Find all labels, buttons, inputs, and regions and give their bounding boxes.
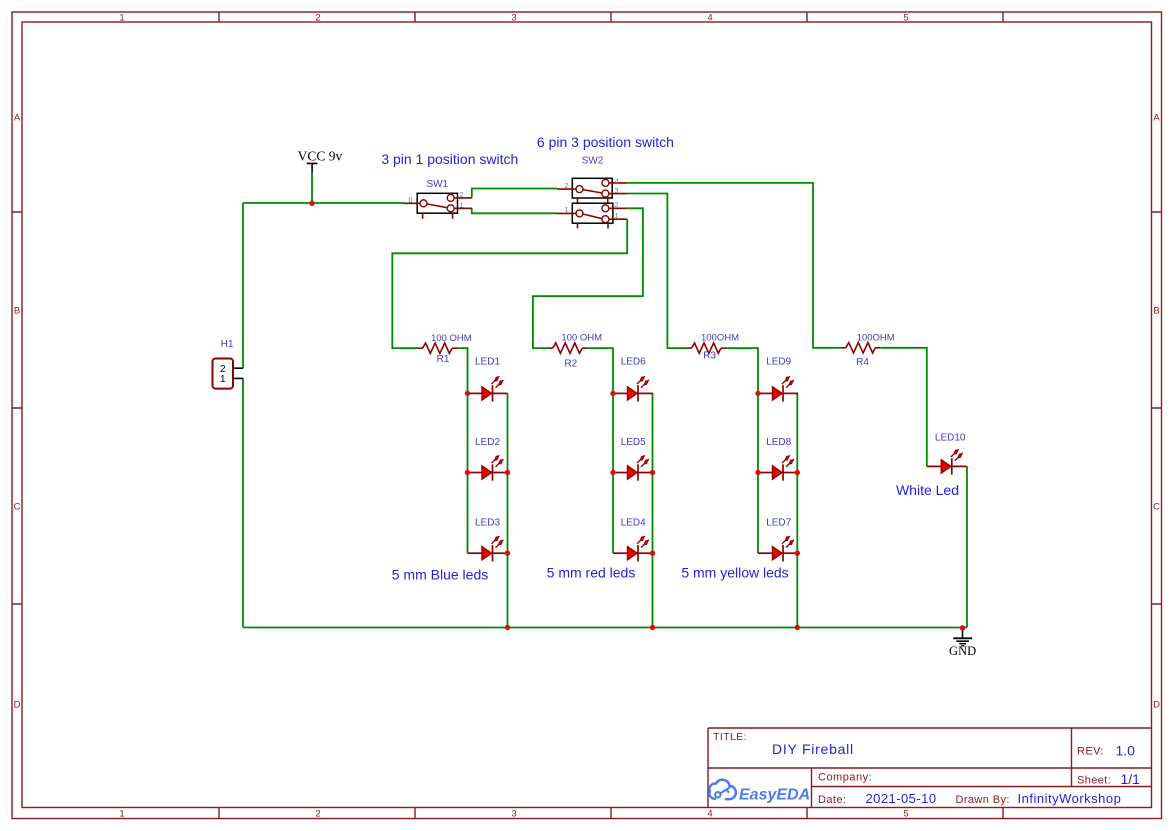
junction node LED8 cathode: [795, 470, 800, 475]
ground GND: [949, 628, 976, 658]
svg-text:2: 2: [565, 181, 569, 190]
svg-text:R4: R4: [856, 357, 869, 368]
LED LED7: [758, 536, 798, 561]
svg-text:2: 2: [315, 809, 320, 820]
svg-text:Company:: Company:: [818, 772, 872, 784]
EasyEDA logo: [709, 780, 810, 804]
wire SW2b pin1 to R1: [392, 219, 627, 348]
switch SW2 section B: [557, 203, 627, 228]
frame column labels: [119, 13, 908, 820]
LED LED9: [758, 376, 798, 401]
svg-text:4: 4: [707, 809, 712, 820]
wire SW2b pin2 to R2: [533, 208, 643, 348]
LED LED5: [613, 455, 653, 480]
power flag VCC 9v: [298, 149, 343, 173]
svg-text:LED8: LED8: [766, 437, 791, 448]
svg-text:H1: H1: [221, 339, 234, 350]
wire yellow LED cathode bus: [796, 393, 798, 627]
svg-text:2: 2: [614, 200, 618, 209]
svg-text:SW1: SW1: [426, 179, 448, 190]
svg-text:GND: GND: [949, 644, 976, 658]
wire H1 pin 1 to bottom rail: [242, 378, 244, 627]
junction node LED3 cathode: [505, 551, 510, 556]
svg-text:A: A: [1153, 113, 1160, 124]
wire red LED cathode bus: [652, 393, 654, 627]
svg-text:B: B: [14, 306, 20, 317]
junction node LED6 anode: [610, 391, 615, 396]
svg-text:VCC 9v: VCC 9v: [298, 149, 343, 164]
wire SW2a pin4 to R4: [627, 183, 841, 348]
svg-text:0: 0: [408, 196, 412, 205]
svg-text:1: 1: [565, 205, 569, 214]
svg-text:EasyEDA: EasyEDA: [739, 787, 810, 804]
svg-text:C: C: [1153, 502, 1160, 513]
svg-text:5: 5: [903, 809, 908, 820]
junction node LED7 cathode: [795, 551, 800, 556]
LED LED6: [613, 376, 653, 401]
svg-text:4: 4: [707, 13, 712, 24]
LED LED10: [927, 449, 967, 474]
svg-text:5 mm Blue leds: 5 mm Blue leds: [392, 567, 488, 583]
frame row labels: [14, 113, 1161, 711]
svg-text:TITLE:: TITLE:: [713, 731, 747, 743]
junction node LED9 anode: [755, 391, 760, 396]
LED LED4: [613, 536, 653, 561]
junction node VCC tap: [309, 201, 314, 206]
svg-text:D: D: [1153, 700, 1160, 711]
junction node LED8 anode: [755, 470, 760, 475]
svg-text:LED1: LED1: [475, 357, 500, 368]
svg-text:1.0: 1.0: [1116, 743, 1136, 759]
junction node blue column to rail: [505, 625, 510, 630]
svg-text:3: 3: [511, 13, 516, 24]
junction node LED5 anode: [610, 470, 615, 475]
svg-text:A: A: [14, 113, 21, 124]
svg-text:4: 4: [614, 176, 618, 185]
wire SW1 pin2 to SW2a pin2: [472, 189, 557, 198]
junction node LED1 anode: [465, 391, 470, 396]
wire R4 to LED10 anode: [880, 348, 927, 467]
wire main horizontal VCC rail: [243, 202, 403, 204]
junction node LED4 cathode: [650, 551, 655, 556]
switch SW2 section A: [557, 178, 627, 203]
svg-text:B: B: [1153, 306, 1159, 317]
svg-text:LED6: LED6: [621, 357, 646, 368]
wire R2 to red LED anode bus: [587, 348, 613, 553]
resistor R4: [841, 343, 880, 353]
LED LED2: [468, 455, 508, 480]
resistor R2: [548, 343, 587, 353]
wire R3 to yellow LED anode bus: [726, 348, 758, 553]
LED LED8: [758, 455, 798, 480]
svg-text:100OHM: 100OHM: [857, 333, 895, 344]
svg-text:2: 2: [315, 13, 320, 24]
junction node GND tap: [960, 625, 965, 630]
resistor R1: [418, 343, 458, 353]
svg-text:3 pin 1 position switch: 3 pin 1 position switch: [381, 151, 518, 167]
junction node yellow column to rail: [795, 625, 800, 630]
svg-text:1/1: 1/1: [1121, 771, 1141, 787]
svg-text:LED4: LED4: [621, 517, 646, 528]
svg-text:Date:: Date:: [818, 794, 846, 806]
svg-text:SW2: SW2: [582, 156, 604, 167]
title block values: [772, 741, 1140, 806]
wire blue LED cathode bus: [507, 393, 509, 627]
svg-text:LED5: LED5: [621, 437, 646, 448]
svg-text:R1: R1: [437, 354, 450, 365]
LED LED3: [468, 536, 508, 561]
svg-text:100OHM: 100OHM: [701, 333, 739, 344]
wire left rail to H1 pin 2: [242, 203, 244, 368]
SW1 pin numbers: [408, 190, 463, 209]
svg-text:3: 3: [511, 809, 516, 820]
junction node red column to rail: [650, 625, 655, 630]
svg-text:1: 1: [459, 201, 463, 210]
svg-text:2021-05-10: 2021-05-10: [866, 791, 937, 806]
svg-text:LED9: LED9: [766, 357, 791, 368]
svg-text:LED2: LED2: [475, 437, 500, 448]
svg-text:Sheet:: Sheet:: [1077, 775, 1111, 787]
svg-text:5 mm red leds: 5 mm red leds: [547, 564, 636, 580]
svg-text:5: 5: [903, 13, 908, 24]
wire LED10 cathode to rail: [966, 466, 968, 627]
svg-text:LED7: LED7: [766, 517, 791, 528]
title block field labels: [713, 731, 1111, 806]
svg-text:5 mm yellow leds: 5 mm yellow leds: [681, 564, 788, 580]
svg-text:100 OHM: 100 OHM: [561, 333, 602, 344]
connector H1: [213, 359, 244, 389]
svg-text:1: 1: [614, 211, 618, 220]
svg-text:C: C: [14, 502, 21, 513]
junction node LED2 cathode: [505, 470, 510, 475]
wire SW1 pin1 to SW2b pin1: [472, 208, 557, 213]
wire R1 to blue LED anode bus: [458, 348, 468, 553]
svg-text:White Led: White Led: [896, 482, 959, 498]
svg-text:6 pin 3 position switch: 6 pin 3 position switch: [537, 134, 674, 150]
svg-text:DIY Fireball: DIY Fireball: [772, 741, 854, 757]
wire SW2a pin3 to R3: [627, 194, 686, 349]
LED LED1: [468, 376, 508, 401]
svg-text:InfinityWorkshop: InfinityWorkshop: [1018, 791, 1122, 806]
svg-text:1: 1: [119, 809, 124, 820]
svg-text:2: 2: [459, 190, 463, 199]
svg-text:R3: R3: [703, 350, 716, 361]
SW2 pin numbers: [565, 176, 619, 220]
svg-text:100 OHM: 100 OHM: [431, 333, 472, 344]
junction node LED2 anode: [465, 470, 470, 475]
svg-text:REV:: REV:: [1077, 746, 1104, 758]
svg-text:D: D: [14, 700, 21, 711]
svg-text:Drawn By:: Drawn By:: [956, 794, 1010, 806]
svg-text:LED10: LED10: [935, 432, 966, 443]
resistor R3: [687, 343, 727, 353]
junction node LED5 cathode: [650, 470, 655, 475]
svg-text:R2: R2: [564, 359, 577, 370]
svg-text:1: 1: [119, 13, 124, 24]
wire bottom ground rail: [243, 627, 967, 629]
svg-text:1: 1: [220, 374, 226, 385]
title block grid: [708, 728, 1152, 808]
switch SW1: [403, 193, 472, 219]
wire VCC drop: [311, 173, 313, 203]
svg-text:LED3: LED3: [475, 517, 500, 528]
svg-text:3: 3: [614, 186, 618, 195]
